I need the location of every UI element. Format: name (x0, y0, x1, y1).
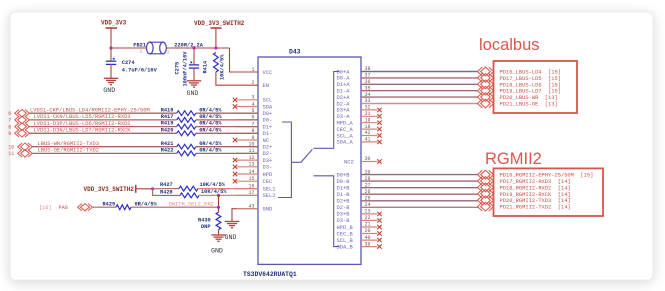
IC D43 right pin 25 D2+B (337, 196, 479, 205)
svg-text:21: 21 (365, 222, 371, 228)
IC D43 left pin 12 D3+ (237, 155, 273, 164)
svg-text:GND: GND (103, 87, 115, 94)
svg-text:D2-A: D2-A (337, 101, 351, 107)
IC D43 right pin 19 HPD_A (337, 117, 378, 126)
no-connect X on pin 4 (233, 104, 237, 108)
wire LBUS-WR/RGMII2-TXD3 (left segment) (33, 146, 177, 148)
wire vertical SEL2 junction to R430 (218, 195, 220, 212)
node junction SWITH_SEL2_EN2 / R430 (217, 206, 220, 209)
no-connect X on pin 42 (377, 133, 381, 137)
capacitor C275 (189, 62, 199, 69)
svg-text:10K/4/5%: 10K/4/5% (220, 54, 226, 80)
svg-text:D1+B: D1+B (337, 186, 351, 192)
wire VDD_3V3 to FB21 (111, 47, 147, 49)
svg-text:6: 6 (8, 111, 11, 117)
power flag VDD_3V3_SWITH2 (lower) (84, 185, 153, 193)
svg-text:VDD_3V3_SWITH2: VDD_3V3_SWITH2 (194, 20, 245, 27)
IC D43 left pin 43 GND (248, 204, 272, 213)
IC D43 right pin 21 HPD_B (337, 222, 378, 231)
svg-text:40: 40 (365, 235, 371, 241)
node junction SEL2 net / R428 (217, 194, 220, 197)
IC D43 right pin 29 D0+B (337, 169, 479, 178)
IC D43 right pin 38 D0+A (337, 66, 479, 75)
svg-text:0R/4/5%: 0R/4/5% (135, 201, 158, 207)
resistor R429 (116, 205, 131, 210)
svg-text:0R/4/5%: 0R/4/5% (199, 121, 222, 127)
svg-text:R414: R414 (203, 60, 209, 74)
off-page connector diamond PD16_LBUS-LD4 (478, 67, 494, 76)
svg-text:26: 26 (365, 189, 371, 195)
svg-text:RGMII2: RGMII2 (485, 150, 542, 168)
IC D43 right pin 36 D1+A (337, 79, 479, 88)
ground below pin 43 (225, 222, 239, 228)
resistor R418 (177, 111, 196, 116)
resistor R421 (177, 144, 196, 149)
IC D43 left pin 8 D1- (237, 128, 273, 137)
svg-text:27: 27 (365, 182, 371, 188)
no-connect X on pin 14 (233, 172, 237, 176)
IC D43 left pin 10 D2+ (237, 142, 273, 151)
svg-text:3: 3 (251, 95, 254, 101)
svg-text:EN: EN (263, 83, 269, 89)
svg-text:D1-A: D1-A (337, 89, 351, 95)
svg-text:9: 9 (251, 135, 254, 141)
svg-text:D0+B: D0+B (337, 172, 351, 178)
svg-text:TS3DV642RUATQ1: TS3DV642RUATQ1 (243, 271, 297, 278)
off-page connector diamond PD19_LBUS-LD7 (478, 86, 494, 95)
svg-text:LVDS1-CKN/LBUS-LD5/RGMII2-RXD3: LVDS1-CKN/LBUS-LD5/RGMII2-RXD3 (34, 114, 131, 120)
svg-text:R427: R427 (160, 182, 173, 188)
svg-text:14: 14 (248, 169, 254, 175)
svg-text:SCL_A: SCL_A (337, 133, 354, 139)
wire C275 upper lead (193, 48, 195, 65)
svg-text:D1+: D1+ (263, 124, 273, 130)
ground below C274 (104, 78, 118, 84)
resistor R430 (DNP) (216, 212, 221, 230)
wire R427 to pin16 SEL1 (198, 188, 258, 190)
wire C274 upper lead (110, 48, 112, 61)
wire LBUS-OE/RGMII2-TXD2 (right segment to IC) (196, 152, 258, 154)
node junction R414 / VDD_3V3_SWITH2 (214, 46, 217, 49)
svg-text:GND: GND (211, 248, 223, 255)
svg-text:D1-: D1- (263, 131, 273, 137)
no-connect X on pin 41 (377, 140, 381, 144)
svg-text:R420: R420 (161, 127, 174, 133)
IC internal switch arm (291, 149, 312, 162)
resistor R419 (177, 124, 196, 129)
svg-text:12: 12 (248, 155, 254, 161)
ground below C275 (187, 81, 201, 87)
svg-text:PD21_RGMII2-TXD2 [14]: PD21_RGMII2-TXD2 [14] (500, 205, 571, 211)
svg-text:SCL_B: SCL_B (337, 238, 354, 244)
off-page connector diamond PD19_RGMII2-RXCK (478, 189, 494, 198)
resistor R428 (180, 193, 199, 198)
off-page connector for net LVDS1-CKN/LBUS-LD5/RGMII2-RXD3 (15, 116, 30, 123)
svg-text:D3+A: D3+A (337, 108, 351, 114)
wire R414 to pin2 EN (216, 72, 258, 85)
IC D43 right pin 35 D1-A (337, 85, 479, 94)
svg-text:D0+A: D0+A (337, 69, 351, 75)
IC internal throw-A bracket (314, 72, 340, 149)
IC D43 left pin 3 SCL (237, 95, 273, 104)
off-page connector diamond PD20_RGMII2-TXD3 (478, 196, 494, 205)
svg-text:PD18_LBUS-LD6 [15]: PD18_LBUS-LD6 [15] (500, 82, 561, 88)
IC D43 right pin 23 D3+B (337, 209, 378, 218)
IC D43 left pin 14 HPD (237, 169, 273, 178)
svg-text:VDD_3V3: VDD_3V3 (101, 20, 127, 27)
svg-text:HPD: HPD (263, 172, 273, 178)
no-connect X on pin 30 (377, 159, 381, 163)
svg-text:8: 8 (8, 124, 11, 130)
svg-text:D0-A: D0-A (337, 76, 351, 82)
IC D43 right pin 22 D3-B (337, 215, 378, 224)
svg-text:30: 30 (365, 156, 371, 162)
IC D43 right pin 28 D0-B (337, 176, 479, 185)
svg-text:22: 22 (365, 215, 371, 221)
wire LVDS1-CKN/LBUS-LD5/RGMII2-RXD3 (right segment to IC) (196, 119, 258, 121)
op-amp/IC D43 TS3DV642RUATQ1 body (258, 57, 361, 264)
svg-text:10K/4/5%: 10K/4/5% (201, 189, 227, 195)
no-connect X on pin 22 (377, 218, 381, 222)
off-page connector diamond PD18_RGMII2-RXD2 (478, 183, 494, 192)
off-page connector diamond PA8 (78, 204, 93, 211)
svg-text:GND: GND (187, 90, 199, 97)
no-connect X on pin 12 (233, 158, 237, 162)
resistor R417 (177, 118, 196, 123)
svg-text:DNP: DNP (201, 224, 211, 230)
svg-text:FB21: FB21 (133, 42, 146, 48)
svg-text:25: 25 (365, 196, 371, 202)
svg-text:1: 1 (140, 49, 143, 55)
svg-text:42: 42 (365, 130, 371, 136)
wire pin43 GND to ground symbol (232, 209, 258, 222)
off-page connector for net LVDS1-D3N/LBUS-LD7/RGMII2-RXCK (15, 130, 30, 137)
svg-text:SWITH_SEL2_EN2: SWITH_SEL2_EN2 (169, 201, 214, 207)
svg-text:PD20_RGMII2-TXD3 [14]: PD20_RGMII2-TXD3 [14] (500, 198, 571, 204)
wire PA8 to R429 (93, 206, 116, 208)
IC D43 right pin 27 D1+B (337, 182, 479, 191)
wire LVDS1-D3P/LBUS-LD6/RGMII2-RXD2 (right segment to IC) (196, 126, 258, 128)
wire LBUS-WR/RGMII2-TXD3 (right segment to IC) (196, 146, 258, 148)
resistor R414 (214, 53, 219, 73)
svg-text:SCL: SCL (263, 98, 273, 104)
svg-text:PD19_RGMII2-RXCK [14]: PD19_RGMII2-RXCK [14] (500, 192, 571, 198)
svg-text:R421: R421 (161, 141, 174, 147)
svg-text:SDA: SDA (263, 104, 273, 110)
svg-text:SDA_A: SDA_A (337, 140, 354, 146)
no-connect X on pin 31 (377, 114, 381, 118)
localbus net box (494, 61, 578, 113)
svg-text:[16]: [16] (39, 205, 51, 211)
svg-text:PD21_LBUS-OE [13]: PD21_LBUS-OE [13] (500, 102, 558, 108)
wire FB21 to VDD_3V3_SWITH2 rail (166, 47, 229, 49)
off-page connector diamond PD20_LBUS-WR (478, 93, 494, 102)
wire LVDS1-D3N/LBUS-LD7/RGMII2-RXCK (left segment) (30, 132, 177, 134)
IC D43 right pin 20 CEC_B (337, 228, 378, 237)
svg-text:23: 23 (365, 209, 371, 215)
RGMII2 net box (494, 168, 604, 216)
svg-text:PA8: PA8 (59, 205, 68, 211)
svg-text:VDD_3V3_SWITH2: VDD_3V3_SWITH2 (84, 186, 135, 193)
svg-text:SDA_B: SDA_B (337, 244, 354, 250)
IC D43 right pin 33 D2-A (337, 98, 479, 107)
svg-text:HPD_B: HPD_B (337, 225, 354, 231)
svg-text:D0-B: D0-B (337, 179, 351, 185)
svg-text:D3+B: D3+B (337, 212, 351, 218)
svg-text:4: 4 (251, 101, 254, 107)
no-connect X on pin 20 (377, 231, 381, 235)
off-page connector diamond PD21_LBUS-OE (478, 99, 494, 108)
svg-text:D2+A: D2+A (337, 95, 351, 101)
IC D43 right pin 37 D0-A (337, 73, 479, 82)
svg-text:D2+B: D2+B (337, 199, 351, 205)
no-connect X on pin 13 (233, 165, 237, 169)
svg-text:29: 29 (365, 169, 371, 175)
svg-text:D3-B: D3-B (337, 218, 351, 224)
no-connect X on pin 23 (377, 212, 381, 216)
svg-text:7: 7 (8, 118, 11, 124)
svg-text:GND: GND (225, 234, 237, 241)
off-page connector for net LBUS-OE/RGMII2-TXD2 (18, 150, 33, 157)
IC internal throw-B bracket (314, 176, 340, 247)
svg-text:D1-B: D1-B (337, 192, 351, 198)
IC D43 right pin 18 CEC_A (337, 124, 378, 133)
wire LVDS1-D3N/LBUS-LD7/RGMII2-RXCK (right segment to IC) (196, 132, 258, 134)
wire net SWITH_SEL2_EN2 (131, 206, 219, 208)
svg-text:PD19_LBUS-LD7 [15]: PD19_LBUS-LD7 [15] (500, 89, 561, 95)
svg-text:R418: R418 (161, 107, 174, 113)
svg-text:10K/4/5%: 10K/4/5% (200, 182, 226, 188)
svg-text:31: 31 (365, 111, 371, 117)
IC D43 right pin 40 SCL_B (337, 235, 378, 244)
svg-text:C275: C275 (175, 62, 181, 75)
svg-text:PD17_LBUS-LD5 [15]: PD17_LBUS-LD5 [15] (500, 76, 561, 82)
node junction VDD_3V3 / C274 / FB21 (109, 46, 112, 49)
svg-text:D43: D43 (289, 49, 301, 56)
wire LBUS-OE/RGMII2-TXD2 (left segment) (33, 152, 177, 154)
svg-text:0R/4/5%: 0R/4/5% (199, 127, 222, 133)
svg-text:35: 35 (365, 85, 371, 91)
svg-text:SEL1: SEL1 (263, 186, 276, 192)
svg-text:PD18_RGMII2-RXD2 [14]: PD18_RGMII2-RXD2 [14] (500, 185, 571, 191)
svg-text:NC2: NC2 (344, 159, 354, 165)
IC D43 left pin 5 D0+ (237, 108, 273, 117)
off-page connector for net LVDS1-CKP/LBUS-LD4/RGMII2-EPHY-25/50M (15, 110, 30, 117)
IC D43 left pin 4 SDA (237, 101, 273, 110)
svg-text:HPD_A: HPD_A (337, 121, 354, 127)
svg-text:9: 9 (8, 131, 11, 137)
node junction R427/R428 supply split (151, 187, 154, 190)
no-connect X on pin 39 (377, 244, 381, 248)
svg-text:34: 34 (365, 92, 371, 98)
svg-text:LVDS1-D3N/LBUS-LD7/RGMII2-RXCK: LVDS1-D3N/LBUS-LD7/RGMII2-RXCK (34, 128, 132, 134)
svg-text:CEC_A: CEC_A (337, 127, 354, 133)
svg-text:D3-A: D3-A (337, 114, 351, 120)
svg-text:D2+: D2+ (263, 145, 273, 151)
IC internal common-pole bus bracket (278, 122, 291, 198)
svg-text:13: 13 (248, 162, 254, 168)
svg-text:VCC: VCC (263, 70, 273, 76)
svg-text:LVDS1-CKP/LBUS-LD4/RGMII2-EPHY: LVDS1-CKP/LBUS-LD4/RGMII2-EPHY-25/50M (30, 108, 150, 114)
svg-text:D3+: D3+ (263, 158, 273, 164)
svg-text:0R/4/5%: 0R/4/5% (199, 148, 222, 154)
no-connect X on pin 21 (377, 225, 381, 229)
wire R428 to pin17 SEL2 (199, 194, 258, 196)
svg-text:39: 39 (365, 241, 371, 247)
off-page connector diamond PD21_RGMII2-TXD2 (478, 202, 494, 211)
IC D43 left pin 6 D0- (237, 115, 273, 124)
svg-text:R429: R429 (103, 201, 116, 207)
svg-text:LBUS-WR/RGMII2-TXD3: LBUS-WR/RGMII2-TXD3 (38, 141, 99, 147)
svg-text:CEC: CEC (263, 179, 273, 185)
off-page connector diamond PD16_RGMII2-EPHY-25/50M (478, 170, 494, 179)
svg-text:D3-: D3- (263, 165, 273, 171)
svg-text:D0-: D0- (263, 118, 273, 124)
ground below R430 (211, 235, 225, 241)
svg-text:11: 11 (8, 151, 14, 157)
no-connect X on pin 9 (233, 138, 237, 142)
ferrite bead FB21 (147, 42, 167, 54)
IC D43 right pin 42 SCL_A (337, 130, 378, 139)
no-connect X on pin 32 (377, 108, 381, 112)
svg-text:33: 33 (365, 98, 371, 104)
power flag VDD_3V3_SWITH2 (top) (194, 20, 245, 48)
svg-text:38: 38 (365, 66, 371, 72)
off-page connector for net LVDS1-D3P/LBUS-LD6/RGMII2-RXD2 (15, 123, 30, 130)
IC D43 left pin 15 CEC (237, 176, 273, 185)
svg-text:41: 41 (365, 137, 371, 143)
svg-text:LVDS1-D3P/LBUS-LD6/RGMII2-RXD2: LVDS1-D3P/LBUS-LD6/RGMII2-RXD2 (34, 121, 131, 127)
IC D43 right pin 30 NC2 (344, 156, 378, 165)
svg-text:PD17_RGMII2-RXD3 [14]: PD17_RGMII2-RXD3 [14] (500, 179, 571, 185)
svg-text:PD16_RGMII2-EPHY-25/50M [15]: PD16_RGMII2-EPHY-25/50M [15] (500, 173, 594, 179)
IC D43 left pin 11 D2- (237, 148, 273, 157)
svg-text:R428: R428 (160, 189, 173, 195)
svg-text:D0+: D0+ (263, 111, 273, 117)
svg-text:LBUS-OE/RGMII2-TXD2: LBUS-OE/RGMII2-TXD2 (38, 148, 99, 154)
IC D43 left pin 16 SEL1 (237, 183, 276, 192)
svg-text:0R/4/5%: 0R/4/5% (199, 107, 222, 113)
no-connect X on pin 18 (377, 127, 381, 131)
wire junction down to R428 row (153, 189, 180, 196)
svg-text:CEC_B: CEC_B (337, 231, 354, 237)
IC D43 right pin 34 D2+A (337, 92, 479, 101)
node junction C275 tap (192, 46, 195, 49)
off-page connector diamond PD17_LBUS-LD5 (478, 74, 494, 83)
svg-text:100nF/4/16V: 100nF/4/16V (183, 51, 189, 87)
wire R430 to ground (218, 230, 220, 235)
IC D43 left pin 17 SEL2 (237, 190, 276, 199)
IC D43 left pin 9 NC (237, 135, 269, 144)
IC D43 left pin 2 EN (251, 80, 269, 89)
wire C274 lower lead (110, 64, 112, 78)
svg-text:R417: R417 (161, 114, 174, 120)
svg-text:10: 10 (8, 145, 14, 151)
wire C275 lower lead (193, 68, 195, 81)
svg-text:37: 37 (365, 73, 371, 79)
off-page connector diamond PD17_RGMII2-RXD3 (478, 177, 494, 186)
svg-text:0R/4/5%: 0R/4/5% (199, 141, 222, 147)
svg-text:C274: C274 (122, 60, 136, 66)
wire rail to pin1 VCC (230, 48, 259, 72)
svg-text:20: 20 (365, 228, 371, 234)
resistor R422 (177, 151, 196, 156)
off-page connector diamond PD18_LBUS-LD6 (478, 80, 494, 89)
svg-text:19: 19 (365, 117, 371, 123)
svg-text:0R/4/5%: 0R/4/5% (199, 114, 222, 120)
no-connect X on pin 40 (377, 238, 381, 242)
svg-text:SEL2: SEL2 (263, 193, 276, 199)
no-connect X on pin 19 (377, 121, 381, 125)
svg-text:PD16_LBUS-LD4 [15]: PD16_LBUS-LD4 [15] (500, 70, 561, 76)
IC D43 right pin 26 D1-B (337, 189, 479, 198)
svg-text:36: 36 (365, 79, 371, 85)
svg-text:28: 28 (365, 176, 371, 182)
IC D43 right pin 39 SDA_B (337, 241, 378, 250)
no-connect X on pin 3 (233, 98, 237, 102)
IC D43 right pin 24 D2-B (337, 202, 479, 211)
IC D43 left pin 1 VCC (251, 67, 272, 76)
svg-text:NC: NC (263, 138, 269, 144)
wire LVDS1-D3P/LBUS-LD6/RGMII2-RXD2 (left segment) (30, 126, 177, 128)
svg-text:32: 32 (365, 105, 371, 111)
svg-text:18: 18 (365, 124, 371, 130)
IC D43 right pin 41 SDA_A (337, 137, 378, 146)
svg-text:GND: GND (263, 207, 273, 213)
svg-text:220R/2.2A: 220R/2.2A (174, 42, 203, 48)
IC D43 left pin 7 D1+ (237, 121, 273, 130)
resistor R427 (179, 186, 198, 191)
svg-text:R419: R419 (161, 121, 174, 127)
svg-text:R430: R430 (198, 217, 211, 223)
power flag VDD_3V3 (101, 20, 127, 49)
IC D43 left pin 13 D3- (237, 162, 273, 171)
wire LVDS1-CKP/LBUS-LD4/RGMII2-EPHY-25/50M (left segment) (30, 112, 177, 114)
resistor R420 (177, 131, 196, 136)
svg-text:localbus: localbus (479, 36, 540, 54)
IC D43 right pin 31 D3-A (337, 111, 378, 120)
svg-text:D2-B: D2-B (337, 205, 351, 211)
svg-text:D1+A: D1+A (337, 82, 351, 88)
svg-text:PD20_LBUS-WR [13]: PD20_LBUS-WR [13] (500, 95, 558, 101)
svg-text:2: 2 (167, 50, 170, 56)
capacitor C274 (106, 58, 116, 65)
svg-text:R422: R422 (161, 148, 174, 154)
IC D43 right pin 32 D3+A (337, 105, 378, 114)
wire LVDS1-CKN/LBUS-LD5/RGMII2-RXD3 (left segment) (30, 119, 177, 121)
svg-text:15: 15 (248, 176, 254, 182)
wire to resistor R427 (153, 188, 179, 190)
svg-text:24: 24 (365, 202, 371, 208)
no-connect X on pin 15 (233, 179, 237, 183)
svg-text:D2-: D2- (263, 151, 273, 157)
svg-text:4.7uF/6/16V: 4.7uF/6/16V (122, 68, 158, 74)
off-page connector for net LBUS-WR/RGMII2-TXD3 (18, 143, 33, 150)
wire LVDS1-CKP/LBUS-LD4/RGMII2-EPHY-25/50M (right segment to IC) (196, 112, 258, 114)
